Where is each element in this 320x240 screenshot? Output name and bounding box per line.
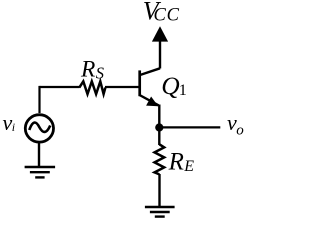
- svg-text:S: S: [96, 64, 104, 83]
- node vo label: [227, 110, 244, 138]
- ground (source): [25, 167, 55, 177]
- node VCC label: [143, 0, 180, 26]
- svg-text:CC: CC: [154, 6, 180, 26]
- resistor RS: [79, 81, 105, 94]
- label RS: [80, 57, 104, 83]
- VCC supply arrow: [152, 26, 168, 68]
- wire base lead: [40, 86, 80, 88]
- svg-text:1: 1: [179, 80, 187, 99]
- wire resistor to base: [105, 86, 139, 88]
- wire node to RE: [158, 128, 160, 145]
- wire source riser: [38, 86, 40, 113]
- wire source to ground: [38, 142, 40, 167]
- label vi: [3, 110, 16, 135]
- wire collector diagonal: [140, 68, 160, 75]
- source vi circle: [25, 115, 53, 142]
- svg-text:o: o: [236, 122, 244, 138]
- source sine wave: [29, 123, 50, 132]
- resistor RE: [155, 144, 165, 174]
- ground (RE): [145, 207, 175, 217]
- node junction dot: [155, 123, 163, 131]
- svg-text:E: E: [183, 158, 194, 175]
- wire emitter vertical to node: [158, 105, 160, 129]
- svg-text:Q: Q: [161, 71, 179, 100]
- svg-text:R: R: [168, 148, 184, 175]
- wire RE to ground: [158, 174, 160, 207]
- transistor Q1 base bar: [138, 70, 141, 96]
- label RE: [168, 148, 195, 175]
- transistor Q1 emitter with arrow: [140, 95, 159, 106]
- label Q1: [161, 71, 187, 100]
- svg-text:R: R: [80, 57, 95, 83]
- svg-text:i: i: [12, 120, 15, 134]
- wire output to vo: [159, 126, 220, 128]
